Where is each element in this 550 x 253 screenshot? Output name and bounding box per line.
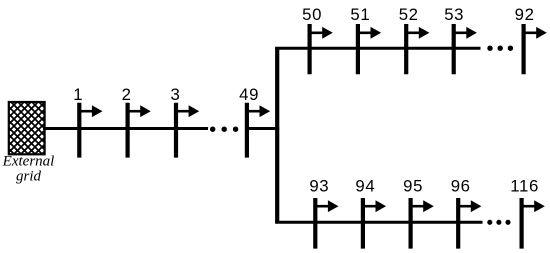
load arrow at bus 51 xyxy=(358,27,381,39)
wire: bottom feeder xyxy=(275,221,482,224)
load arrow at bus 116 xyxy=(522,200,545,212)
bus 95 bar xyxy=(409,198,413,249)
svg-text:grid: grid xyxy=(16,169,42,185)
wire: main feeder from external grid to bus 3 area xyxy=(43,127,208,130)
load arrow at bus 2 xyxy=(128,105,151,117)
continuation dots on bottom feeder xyxy=(487,220,510,225)
load arrow at bus 1 xyxy=(79,105,102,117)
load arrow at bus 95 xyxy=(411,200,434,212)
bus label 96 xyxy=(451,177,471,196)
bus label 92 xyxy=(515,5,535,24)
svg-text:116: 116 xyxy=(510,177,539,196)
svg-text:50: 50 xyxy=(302,5,322,24)
bus label 1 xyxy=(73,85,83,104)
svg-text:1: 1 xyxy=(73,85,83,104)
bus 51 bar xyxy=(356,24,360,74)
svg-text:94: 94 xyxy=(355,177,375,196)
bus 1 bar xyxy=(77,103,81,158)
bus 92 bar xyxy=(521,24,525,74)
load arrow at bus 53 xyxy=(454,27,477,39)
load arrow at bus 93 xyxy=(315,200,338,212)
load arrow at bus 50 xyxy=(310,27,333,39)
svg-text:96: 96 xyxy=(451,177,471,196)
bus 49 bar xyxy=(245,103,249,158)
load arrow at bus 92 xyxy=(524,27,547,39)
bus label 93 xyxy=(309,177,329,196)
bus label 52 xyxy=(399,5,419,24)
wire: bus 49 to trunk junction xyxy=(247,127,279,130)
svg-text:2: 2 xyxy=(122,85,132,104)
continuation dots on top feeder xyxy=(487,46,513,51)
load arrow at bus 94 xyxy=(363,200,386,212)
svg-text:93: 93 xyxy=(309,177,329,196)
bus 52 bar xyxy=(404,24,408,74)
bus 96 bar xyxy=(456,198,460,249)
bus 93 bar xyxy=(313,198,317,249)
load arrow at bus 96 xyxy=(458,200,481,212)
load arrow at bus 52 xyxy=(406,27,429,39)
bus label 2 xyxy=(122,85,132,104)
bus label 49 xyxy=(239,85,259,104)
load arrow at bus 49 xyxy=(247,105,270,117)
load arrow at bus 3 xyxy=(176,105,199,117)
svg-text:52: 52 xyxy=(399,5,419,24)
svg-text:3: 3 xyxy=(171,85,181,104)
svg-text:92: 92 xyxy=(515,5,535,24)
svg-text:External: External xyxy=(2,154,55,170)
continuation dots on main feeder xyxy=(210,127,238,132)
bus label 51 xyxy=(350,5,370,24)
bus 50 bar xyxy=(308,24,312,74)
bus label 95 xyxy=(403,177,423,196)
bus label 116 xyxy=(510,177,539,196)
bus 53 bar xyxy=(452,24,456,74)
svg-text:53: 53 xyxy=(444,5,464,24)
bus 2 bar xyxy=(125,103,129,158)
svg-text:95: 95 xyxy=(403,177,423,196)
bus label 3 xyxy=(171,85,181,104)
bus 116 bar xyxy=(519,198,523,249)
external grid label xyxy=(2,154,55,185)
svg-text:51: 51 xyxy=(350,5,370,24)
bus label 94 xyxy=(355,177,375,196)
wire: top feeder xyxy=(275,47,480,50)
svg-text:49: 49 xyxy=(239,85,259,104)
bus label 53 xyxy=(444,5,464,24)
bus 3 bar xyxy=(174,103,178,158)
bus label 50 xyxy=(302,5,322,24)
wire: vertical trunk joining top and bottom feeders xyxy=(275,48,279,222)
external grid symbol (cross-hatched box) xyxy=(9,102,45,154)
bus 94 bar xyxy=(361,198,365,249)
